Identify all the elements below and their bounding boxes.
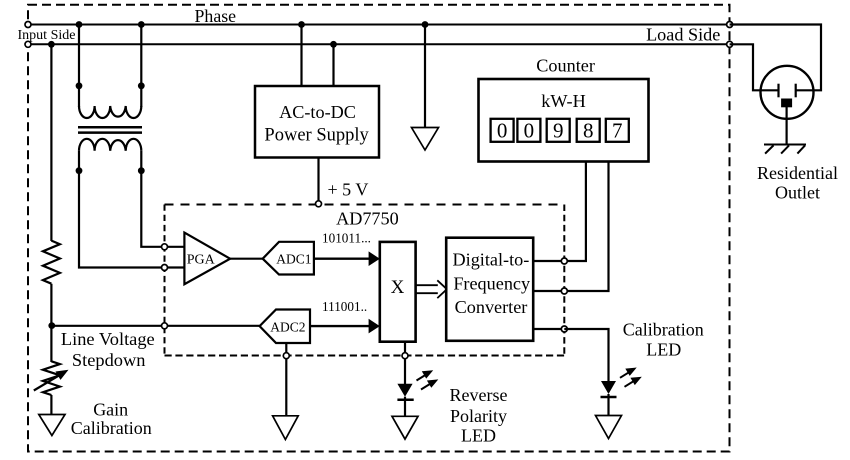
earth ground outlet [764,145,806,154]
outlet left slot [777,84,779,98]
node reverse LED pin [402,353,408,359]
wire phase to power supply [300,25,302,87]
svg-text:0: 0 [497,118,508,142]
svg-text:Reverse: Reverse [450,385,508,405]
LED D2 light arrows [620,368,642,387]
LED D1 light arrows [417,370,439,389]
svg-text:X: X [391,277,405,298]
wire ground node to analog ground [285,359,287,416]
svg-text:ADC1: ADC1 [276,251,311,266]
counter digit box 0 [491,118,514,142]
potentiometer wiper arrow [34,370,69,391]
svg-text:Load Side: Load Side [646,24,720,44]
wire tap to ADC2 [51,325,259,327]
wire neutral to power supply [332,44,334,86]
wire transformer primary right leg [140,25,142,108]
wire PGA output to ADC1 [230,258,263,260]
svg-text:Residential: Residential [757,163,838,183]
wire output3 to calibration LED [564,329,608,382]
digital-to-frequency converter box [446,238,533,341]
svg-text:Power Supply: Power Supply [264,126,369,146]
wire ADC1 to multiplier with arrowhead [314,251,380,266]
svg-text:PGA: PGA [187,252,216,267]
wire Neutral line (second) [28,43,730,45]
label Input Side [15,27,79,44]
node ADC2 input pin [162,323,168,329]
transformer T1 secondary winding [79,139,141,151]
node output2 pin [561,288,567,294]
svg-text:7: 7 [612,118,623,142]
svg-text:Input Side: Input Side [18,28,76,43]
svg-text:Counter: Counter [536,55,595,75]
svg-text:Gain: Gain [93,400,128,420]
ground reverse LED [392,416,418,439]
svg-text:Converter: Converter [455,297,528,317]
junction primary right dot [138,82,145,89]
ADC1 block [263,242,314,275]
svg-text:Line Voltage: Line Voltage [61,329,155,349]
wire node to reverse LED [404,359,406,384]
wire phase to ground symbol [424,25,426,129]
block arrow X to converter [416,280,447,298]
node output1 pin [561,258,567,264]
svg-text:Frequency: Frequency [453,274,531,294]
wire LED to ground [404,397,406,417]
svg-text:111001..: 111001.. [322,299,367,314]
junction secondary left dot [76,167,83,174]
outlet right slot lead [796,89,813,91]
ground calibration LED [596,416,622,439]
node ground pin [283,353,289,359]
svg-text:Polarity: Polarity [450,406,507,426]
svg-text:AD7750: AD7750 [336,208,399,228]
svg-text:101011...: 101011... [322,230,371,245]
svg-text:Stepdown: Stepdown [72,350,146,370]
node PGA input1 pin [162,244,168,250]
residential outlet circle [761,66,814,119]
svg-text:8: 8 [583,118,594,142]
op-amp PGA U1 [184,233,230,285]
svg-text:Calibration: Calibration [71,418,152,438]
svg-text:9: 9 [553,118,564,142]
wire +5V output [317,158,319,202]
resistor R1 line voltage stepdown [43,241,60,284]
counter digit box 0 [517,118,540,142]
svg-text:AC-to-DC: AC-to-DC [279,102,356,122]
svg-text:0: 0 [524,118,535,142]
wire ADC2 to analog ground node [285,343,287,356]
svg-text:Digital-to-: Digital-to- [453,250,530,270]
svg-text:Phase: Phase [195,6,237,26]
svg-text:Calibration: Calibration [623,320,704,340]
wire load phase to outlet right [730,25,821,91]
node load phase terminal [727,22,733,28]
junction phase-supply dot [298,21,305,28]
wire resistor to tap node [50,284,52,362]
wire converter output2 [533,290,564,292]
junction neutral-supply dot [330,41,337,48]
svg-text:Outlet: Outlet [775,182,820,202]
wire counter right to converter output2 [564,162,608,292]
counter digit box 7 [606,118,629,142]
junction secondary right dot [138,167,145,174]
wire converter output1 [533,260,564,262]
potentiometer R2 gain calibration [43,361,60,395]
ground power common [412,128,439,151]
LED D2 calibration [601,381,616,394]
counter box [479,79,649,162]
wire Phase line (top) [28,24,730,26]
outlet right slot [795,84,797,98]
node input neutral terminal [25,41,31,47]
wire outlet to earth [785,107,787,145]
power supply U2 box [255,86,379,158]
svg-text:LED: LED [461,426,496,446]
wire load neutral to outlet left [730,44,779,90]
ground analog [273,416,299,440]
transformer T1 primary winding [79,106,141,118]
node PGA input2 pin [162,265,168,271]
svg-text:ADC2: ADC2 [270,320,305,335]
multiplier X box [380,242,416,342]
node output3 pin [561,326,567,332]
node input phase terminal [25,22,31,28]
wire pot to ground [50,395,52,415]
transformer T1 core [78,126,142,129]
svg-text:+ 5 V: + 5 V [328,180,369,200]
counter digit box 8 [577,118,600,142]
wire transformer primary left leg [78,25,80,108]
junction tap dot [48,322,55,329]
junction phase transformer-right dot [138,21,145,28]
wire counter left to converter output1 [564,162,586,262]
ground gain calibration [39,415,65,436]
wire X box to reverse LED node [404,342,406,356]
AD7750 dashed box [165,205,565,356]
junction primary left dot [76,82,83,89]
wire secondary right leg down to PGA upper input [141,151,184,247]
LED D1 reverse polarity [397,384,412,397]
counter digit box 9 [547,118,570,142]
wire ADC2 to multiplier with arrowhead [310,319,380,334]
node +5V pin [316,201,322,207]
junction phase transformer-left dot [76,21,83,28]
wire LED to ground [607,394,609,416]
svg-text:kW-H: kW-H [541,91,585,111]
junction phase-ground dot [422,21,429,28]
wire neutral to resistor [50,44,52,241]
wire converter output3 [533,328,564,330]
ADC2 block [260,310,310,344]
outlet left slot lead [761,89,779,91]
node load neutral terminal [727,41,733,47]
wire secondary left leg down to PGA lower input [79,151,184,268]
junction neutral-resistor dot [48,41,55,48]
outlet ground slot [781,99,792,108]
svg-text:LED: LED [646,340,681,360]
